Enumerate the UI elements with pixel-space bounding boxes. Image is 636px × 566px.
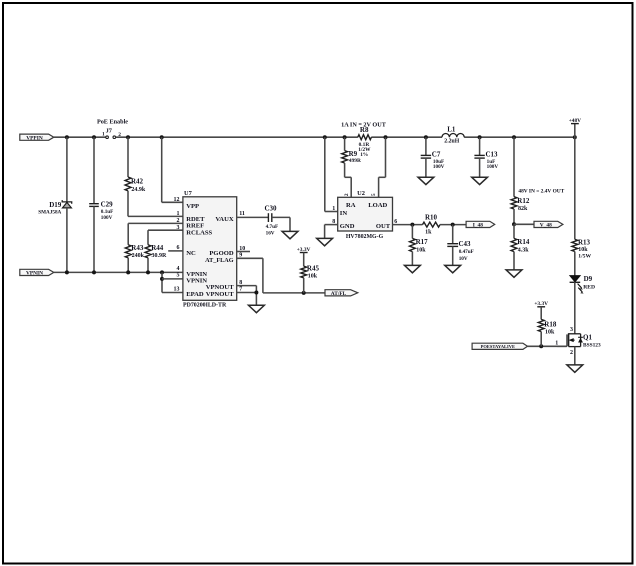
wire Q1 source to ground (574, 347, 576, 365)
inductor L1 2.2uH (442, 125, 464, 144)
svg-text:HV7802MG-G: HV7802MG-G (346, 234, 384, 240)
node junction C29 top (92, 135, 96, 139)
svg-text:1/5W: 1/5W (578, 253, 591, 259)
wire rail to U2 IN (325, 137, 338, 211)
capacitor C7 10uF 100V (421, 135, 445, 177)
wire VPNOUT pins to ground (237, 286, 259, 306)
svg-text:1A IN = 2V OUT: 1A IN = 2V OUT (341, 122, 387, 129)
diode D19 SMAJ58A (38, 137, 71, 272)
label 48V IN = 2.4V OUT (518, 188, 564, 194)
node junction U2 IN branch (323, 135, 327, 139)
ground below VPNOUT (249, 305, 265, 312)
svg-text:10V: 10V (459, 256, 468, 262)
svg-text:C30: C30 (264, 205, 277, 213)
svg-text:16V: 16V (266, 231, 275, 237)
resistor R12 82k (511, 135, 530, 224)
svg-text:100V: 100V (433, 164, 445, 170)
ground below Q1 (567, 365, 583, 372)
svg-text:10k: 10k (308, 274, 318, 280)
svg-text:U2: U2 (357, 190, 365, 197)
node VPPIN flag (20, 134, 54, 141)
resistor R44 30.9R (145, 230, 183, 272)
node junction D19 top (65, 135, 69, 139)
svg-text:100V: 100V (487, 164, 499, 170)
svg-text:PoE Enable: PoE Enable (97, 119, 128, 126)
svg-text:5: 5 (177, 273, 180, 279)
svg-text:7: 7 (239, 287, 242, 293)
wire POESTAYALIVE to Q1 gate (528, 344, 567, 348)
svg-text:C43: C43 (459, 240, 472, 248)
svg-text:2: 2 (177, 218, 180, 224)
svg-text:V_48: V_48 (540, 223, 552, 229)
svg-text:L1: L1 (447, 125, 456, 133)
wire VPP to U7 pin12 (162, 137, 183, 202)
U7 NC pin stub (168, 250, 183, 252)
svg-text:24.9k: 24.9k (131, 187, 146, 193)
U7 left pin names (186, 203, 212, 298)
resistor R17 10k (410, 225, 429, 266)
svg-text:1: 1 (177, 211, 180, 217)
svg-text:4: 4 (177, 266, 180, 272)
svg-text:82k: 82k (518, 206, 528, 212)
svg-text:OUT: OUT (376, 223, 391, 230)
jumper J7 PoE Enable (97, 119, 128, 139)
ground below C43 (445, 265, 461, 272)
U7 PGOOD pin stub (237, 251, 250, 253)
svg-text:1: 1 (332, 206, 335, 212)
svg-text:IN: IN (340, 210, 348, 217)
U7 pin numbers (174, 197, 246, 293)
svg-text:GND: GND (340, 223, 355, 230)
svg-text:48V IN = 2.4V OUT: 48V IN = 2.4V OUT (518, 188, 564, 194)
svg-text:Q1: Q1 (583, 334, 592, 342)
svg-text:VAUX: VAUX (215, 216, 233, 223)
node AT/FL flag (325, 290, 358, 297)
resistor R42 24.9k (125, 137, 183, 216)
resistor R18 10k (534, 301, 557, 346)
op-amp U2 HV7802MG-G body (338, 190, 393, 240)
svg-text:13: 13 (174, 287, 180, 293)
LED D9 RED (570, 275, 595, 294)
svg-text:+48V: +48V (569, 118, 581, 124)
node junction VPNIN pins (160, 270, 164, 274)
svg-text:C7: C7 (432, 150, 441, 158)
svg-text:RA: RA (346, 202, 356, 209)
node junction C29 bottom (92, 270, 96, 274)
svg-text:R44: R44 (151, 244, 164, 252)
svg-text:R17: R17 (416, 238, 429, 246)
svg-text:R18: R18 (544, 320, 557, 328)
svg-text:POESTAYALIVE: POESTAYALIVE (481, 344, 515, 349)
resistor R43 240k (125, 223, 183, 272)
svg-text:10k: 10k (416, 248, 426, 254)
U2 pin numbers (332, 193, 397, 225)
svg-text:VPNOUT: VPNOUT (206, 291, 234, 298)
svg-text:VPNOUT: VPNOUT (206, 284, 234, 291)
svg-text:2: 2 (570, 350, 573, 356)
ground below R14 (506, 270, 522, 277)
svg-text:J7: J7 (106, 127, 113, 134)
svg-text:R42: R42 (131, 178, 144, 186)
svg-text:RCLASS: RCLASS (186, 229, 212, 236)
svg-text:VPP: VPP (186, 203, 199, 210)
svg-text:RED: RED (583, 284, 595, 290)
resistor R10 1k (423, 214, 441, 236)
svg-text:U7: U7 (184, 190, 193, 197)
svg-text:30.9R: 30.9R (152, 253, 168, 259)
svg-text:D9: D9 (584, 275, 593, 283)
svg-text:PD70200ILD-TR: PD70200ILD-TR (183, 303, 227, 309)
node V_48 flag (534, 221, 563, 228)
wire R10 to I_48 flag (440, 223, 466, 227)
svg-text:R12: R12 (517, 197, 530, 205)
resistor R45 10k pull-up (297, 247, 320, 293)
wire to V_48 flag (514, 223, 534, 225)
svg-text:VPNIN: VPNIN (186, 277, 207, 284)
svg-text:10k: 10k (545, 330, 555, 336)
svg-text:4.7uF: 4.7uF (266, 224, 279, 230)
node junction V_48 branch (512, 222, 516, 226)
svg-text:4.3k: 4.3k (518, 247, 530, 253)
svg-text:R9: R9 (349, 150, 358, 158)
svg-text:C29: C29 (101, 201, 114, 209)
resistor R9 499R (342, 137, 361, 197)
svg-text:1k: 1k (425, 229, 432, 235)
svg-text:AT/FL: AT/FL (331, 291, 347, 297)
wire top rail R8 to L1 (371, 136, 442, 138)
wire top rail L1 to +48V (464, 136, 575, 138)
capacitor C30 4.7uF 16V (237, 205, 290, 237)
svg-text:R43: R43 (131, 244, 144, 252)
node POESTAYALIVE flag (472, 343, 527, 349)
svg-text:NC: NC (186, 250, 196, 257)
ground below C7 (418, 177, 434, 184)
svg-text:0.47uF: 0.47uF (459, 249, 474, 255)
svg-text:C13: C13 (486, 150, 499, 158)
node junction R44 bottom (146, 270, 150, 274)
svg-text:D19: D19 (49, 201, 62, 209)
wire VPNIN to pin5 and EPAD (160, 272, 183, 292)
node I_48 flag (466, 221, 495, 228)
svg-text:5: 5 (371, 193, 377, 196)
svg-text:10k: 10k (578, 247, 588, 253)
svg-text:R45: R45 (307, 265, 320, 273)
svg-text:EPAD: EPAD (186, 291, 204, 298)
ground below C30 (282, 231, 298, 238)
wire top rail J7 to R8 (116, 136, 358, 138)
svg-text:R10: R10 (425, 214, 438, 222)
svg-text:I_48: I_48 (473, 223, 483, 229)
svg-text:2.2uH: 2.2uH (444, 138, 459, 144)
ground below R17 (405, 265, 421, 272)
label 1A IN = 2V OUT (341, 122, 387, 129)
svg-text:LOAD: LOAD (368, 202, 387, 209)
svg-text:AT_FLAG: AT_FLAG (205, 257, 234, 264)
svg-text:SMAJ58A: SMAJ58A (38, 210, 61, 216)
resistor R14 4.3k (511, 224, 530, 270)
node junction R9 R8 left (343, 135, 347, 139)
wire AT_FLAG to AT/FL (237, 258, 325, 295)
capacitor C29 0.1uF 100V (89, 137, 113, 272)
svg-text:R13: R13 (578, 239, 591, 247)
svg-text:1%: 1% (360, 152, 368, 158)
svg-text:PGOOD: PGOOD (209, 250, 233, 257)
wire U2 OUT to R10 (393, 223, 423, 227)
wire D9 to Q1 drain (574, 282, 576, 334)
wire VPPIN to J7 pin1 (54, 136, 106, 138)
node junction VPP branch (160, 135, 164, 139)
transistor Q1 BSS123 (555, 327, 601, 356)
svg-text:100V: 100V (101, 215, 113, 221)
power +48V (569, 118, 581, 139)
ground below C13 (472, 177, 488, 184)
svg-text:3: 3 (177, 225, 180, 231)
op-amp U7 PD70200ILD-TR body (183, 190, 237, 309)
svg-text:11: 11 (239, 211, 245, 217)
svg-text:3: 3 (570, 327, 573, 333)
wire R8 right to U2 LOAD (379, 137, 386, 197)
U2 pin names (340, 202, 391, 230)
node junction D19 bottom (65, 270, 69, 274)
node junction R43 bottom (126, 270, 130, 274)
svg-text:240k: 240k (132, 253, 145, 259)
node VPNIN flag (20, 269, 54, 276)
svg-text:VPPIN: VPPIN (26, 136, 43, 142)
wire VPNIN rail (54, 271, 183, 273)
resistor R8 0.1R 1/2W (358, 126, 372, 158)
capacitor C43 0.47uF 10V (447, 225, 474, 266)
capacitor C13 1uF 100V (474, 135, 498, 177)
svg-text:VPNIN: VPNIN (26, 271, 43, 277)
svg-text:2: 2 (344, 193, 350, 196)
svg-text:1: 1 (102, 132, 105, 138)
svg-text:R14: R14 (517, 238, 530, 246)
wire U2 GND to ground (325, 225, 338, 239)
node junction R8 right (384, 135, 388, 139)
svg-text:0.1uF: 0.1uF (101, 209, 114, 215)
ground below U2 (317, 238, 333, 245)
U7 right pin names (205, 216, 234, 298)
node junction R42 top (126, 135, 130, 139)
resistor R13 10k 1/5W (572, 137, 592, 275)
svg-text:BSS123: BSS123 (583, 343, 601, 349)
svg-text:499R: 499R (349, 158, 361, 164)
svg-text:12: 12 (174, 197, 180, 203)
